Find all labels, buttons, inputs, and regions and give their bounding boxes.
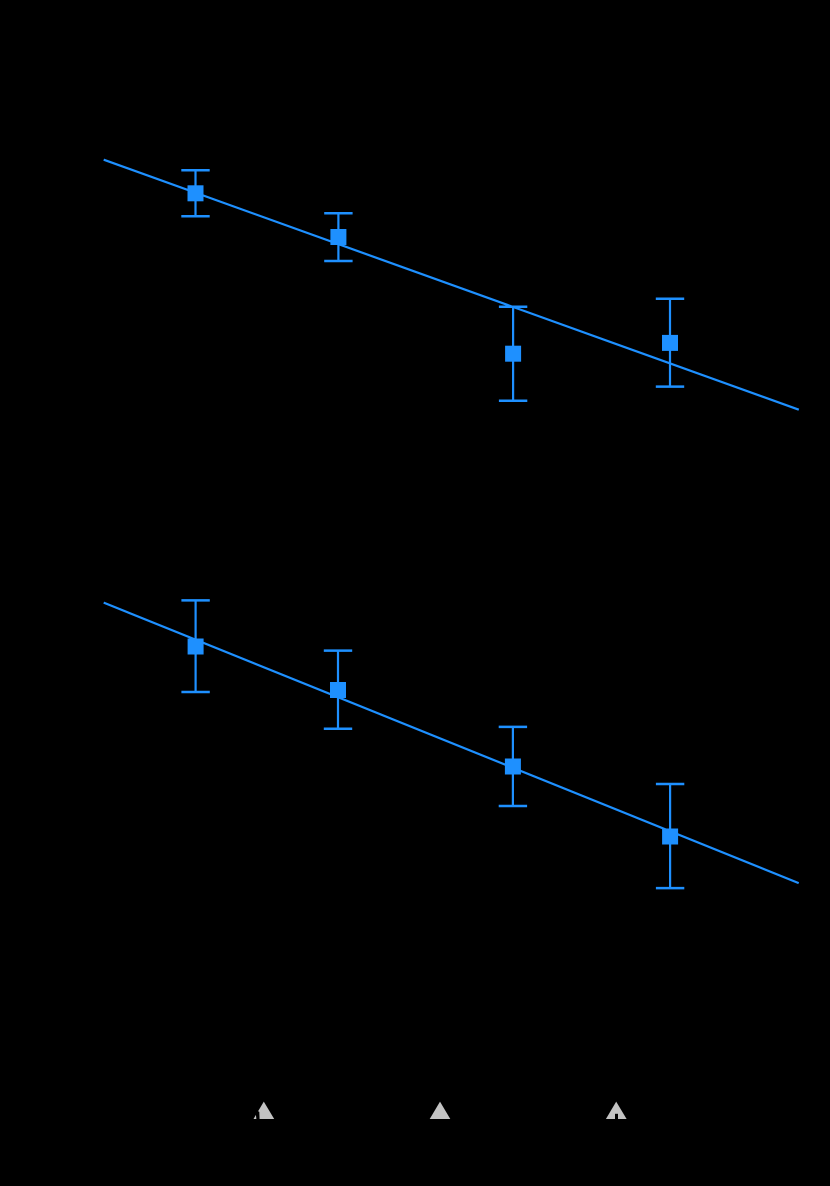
top panel point 3 error bar [499,307,527,401]
bottom panel point 4 marker [662,829,678,845]
top panel point 2 marker [330,229,346,245]
top panel fit line [104,160,799,410]
top panel point 1 error bar [181,170,209,216]
bottom panel point 2 error bar [324,651,352,729]
bottom panel point 2 marker [330,682,346,698]
bottom panel point 1 marker [188,639,204,655]
bottom panel point 4 error bar [656,784,684,888]
top panel point 4 error bar [656,299,684,387]
black slash over triangle 1 [255,1110,259,1119]
bottom panel point 3 error bar [499,727,527,806]
top panel point 2 error bar [324,213,352,261]
bottom panel fit line [104,603,799,884]
gray triangle 2 [430,1102,451,1119]
black notch over triangle 3 [615,1114,618,1119]
gray triangle 3 [606,1102,627,1119]
top panel point 3 marker [505,346,521,362]
gray triangle 1 [254,1102,275,1119]
bottom panel point 3 marker [505,759,521,775]
bottom panel point 1 error bar [181,600,209,692]
top panel point 1 marker [188,185,204,201]
top panel point 4 marker [662,335,678,351]
